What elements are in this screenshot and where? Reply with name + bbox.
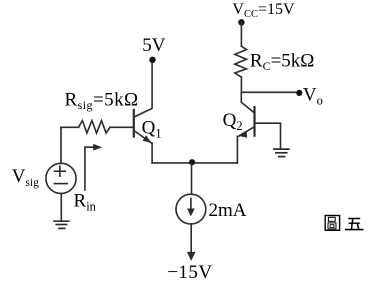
svg-text:VCC=15V: VCC=15V xyxy=(232,1,295,20)
svg-text:Vo: Vo xyxy=(303,85,323,108)
svg-text:2mA: 2mA xyxy=(209,200,247,221)
svg-text:Q2: Q2 xyxy=(223,110,243,133)
svg-text:−15V: −15V xyxy=(167,262,212,283)
svg-text:Q1: Q1 xyxy=(142,118,162,141)
svg-text:Vsig: Vsig xyxy=(12,166,39,189)
svg-text:Rsig=5kΩ: Rsig=5kΩ xyxy=(65,89,139,112)
svg-text:5V: 5V xyxy=(142,35,166,56)
svg-text:Rin: Rin xyxy=(74,191,97,214)
svg-text:RC=5kΩ: RC=5kΩ xyxy=(250,50,315,73)
